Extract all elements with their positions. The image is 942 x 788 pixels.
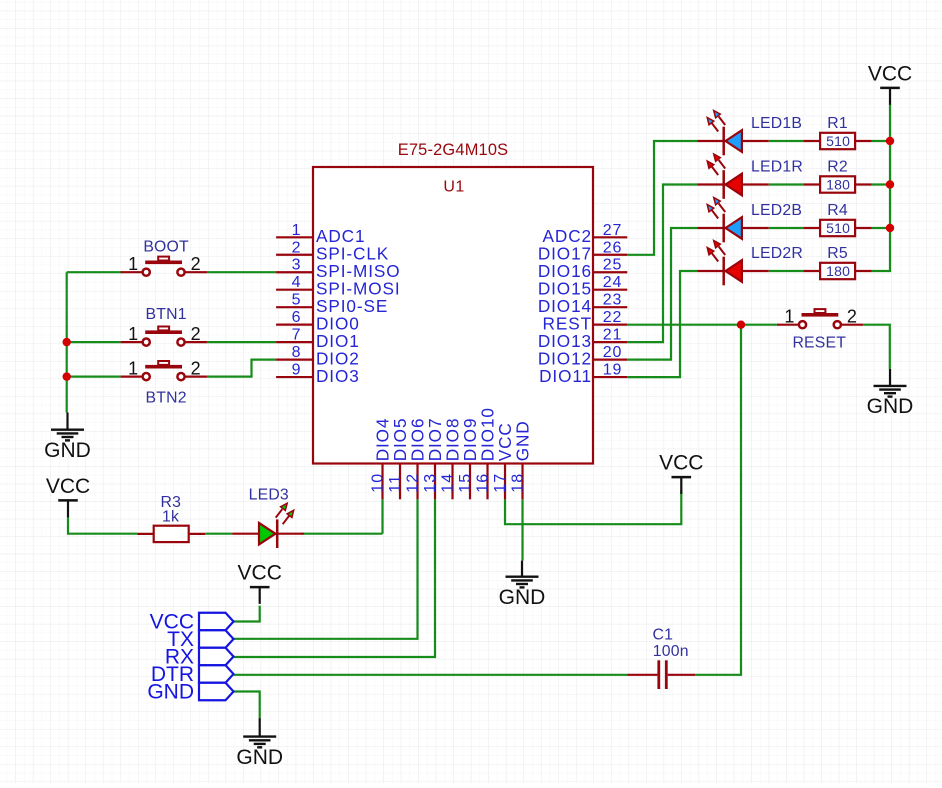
pin 17 VCC (bottom): [492, 422, 515, 499]
pin 26 DIO17 (right): [538, 239, 627, 263]
svg-text:5: 5: [292, 292, 302, 309]
svg-text:LED3: LED3: [249, 486, 289, 503]
svg-text:6: 6: [292, 309, 302, 326]
svg-text:C1: C1: [653, 627, 674, 644]
pin 21 DIO13 (right): [538, 327, 627, 351]
svg-text:9: 9: [292, 362, 302, 379]
svg-text:LED1B: LED1B: [751, 115, 802, 132]
svg-text:11: 11: [387, 474, 404, 493]
wire pin26 to LED1B: [627, 141, 697, 255]
svg-text:1: 1: [128, 359, 138, 379]
pin 11 DIO5 (bottom): [387, 418, 410, 500]
wire pin17 to VCC flag: [505, 491, 681, 525]
resistor R2: [804, 159, 872, 193]
svg-text:15: 15: [457, 473, 474, 493]
svg-text:13: 13: [422, 473, 439, 493]
IC U1 body E75-2G4M10S: [313, 141, 593, 464]
wire VCC left to R3: [68, 517, 137, 534]
svg-text:7: 7: [292, 327, 302, 344]
pin 18 GND (bottom): [509, 420, 532, 499]
svg-text:10: 10: [369, 473, 386, 493]
svg-text:U1: U1: [443, 179, 464, 196]
pin 13 DIO7 (bottom): [422, 418, 445, 500]
connector pin VCC: [150, 610, 234, 633]
pin 4 SPI-MOSI (left): [276, 274, 400, 298]
wire BTN1 to pin7: [207, 341, 276, 343]
wire BOOT/BTN1/BTN2 left vertical to GND: [66, 272, 68, 412]
svg-text:R2: R2: [827, 159, 848, 176]
svg-text:BTN2: BTN2: [146, 390, 187, 407]
svg-text:GND: GND: [867, 395, 914, 418]
svg-text:14: 14: [439, 473, 456, 493]
wire BTN1 row left: [67, 341, 121, 343]
svg-text:GND: GND: [499, 586, 546, 609]
wire BOOT to pin3: [207, 271, 276, 273]
junction: [62, 338, 70, 346]
connector pin DTR: [151, 663, 234, 686]
svg-text:VCC: VCC: [46, 475, 90, 498]
wire R3 to LED3: [205, 533, 232, 535]
svg-text:1: 1: [292, 222, 302, 239]
power flag GND (right of RESET): [867, 369, 914, 418]
svg-text:VCC: VCC: [238, 562, 282, 585]
wire LED1B to R1: [769, 140, 804, 142]
svg-text:1: 1: [128, 254, 138, 274]
wire pin20 to LED2B: [627, 228, 697, 360]
svg-text:1k: 1k: [162, 508, 179, 525]
connector pin GND: [147, 680, 233, 703]
svg-text:180: 180: [826, 177, 850, 193]
wire pin21 to LED1R: [627, 185, 697, 343]
wire VCC rail vertical: [872, 104, 890, 271]
svg-text:GND: GND: [147, 680, 194, 703]
svg-text:8: 8: [292, 344, 302, 361]
junction: [737, 321, 745, 329]
svg-text:BOOT: BOOT: [143, 239, 189, 256]
svg-text:24: 24: [603, 274, 623, 291]
junction: [886, 224, 894, 232]
pin 3 SPI-MISO (left): [276, 257, 400, 281]
svg-text:E75-2G4M10S: E75-2G4M10S: [398, 141, 509, 159]
capacitor C1: [628, 627, 696, 690]
resistor R1: [804, 115, 872, 149]
svg-text:3: 3: [292, 257, 302, 274]
wire R1 to VCC rail: [872, 140, 890, 142]
svg-text:R5: R5: [827, 245, 848, 262]
wire REST node down to C1: [695, 325, 741, 675]
svg-text:23: 23: [603, 292, 623, 309]
pin 20 DIO12 (right): [538, 344, 627, 368]
svg-text:2: 2: [191, 359, 201, 379]
pushbutton RESET: [777, 307, 863, 352]
svg-text:LED2R: LED2R: [751, 245, 803, 262]
svg-text:4: 4: [292, 274, 302, 291]
svg-text:RESET: RESET: [792, 335, 846, 352]
svg-text:21: 21: [603, 327, 623, 344]
svg-text:26: 26: [603, 239, 623, 256]
wire RESET to GND: [863, 325, 890, 369]
wire pin13 to RX: [234, 499, 436, 657]
junction: [886, 137, 894, 145]
svg-text:27: 27: [603, 222, 623, 239]
wire pin10 down: [381, 499, 383, 533]
wire REST pin22 to RESET button: [627, 324, 777, 326]
wire LED2B to R4: [769, 227, 804, 229]
LED LED1B: [697, 111, 802, 156]
pin 8 DIO2 (left): [276, 344, 360, 368]
svg-text:GND: GND: [236, 746, 283, 769]
wire LED1R to R2: [769, 183, 804, 185]
svg-text:25: 25: [603, 257, 623, 274]
wire pin19 to LED2R: [627, 271, 697, 377]
wire R2 to VCC rail: [872, 183, 890, 185]
svg-text:2: 2: [191, 254, 201, 274]
svg-text:GND: GND: [44, 439, 91, 462]
svg-text:12: 12: [404, 473, 421, 493]
svg-text:2: 2: [292, 239, 302, 256]
pushbutton BTN2: [121, 359, 207, 407]
svg-text:VCC: VCC: [868, 62, 912, 85]
svg-text:100n: 100n: [653, 643, 689, 660]
pin 9 DIO3 (left): [276, 362, 360, 386]
resistor R3: [137, 494, 205, 542]
svg-text:1: 1: [128, 324, 138, 344]
svg-text:DIO11: DIO11: [539, 366, 592, 386]
connector pin RX: [165, 645, 234, 668]
resistor R4: [804, 202, 872, 236]
pin 23 DIO14 (right): [538, 292, 627, 316]
connector pin TX: [167, 628, 233, 651]
svg-text:LED1R: LED1R: [751, 159, 803, 176]
pin 16 DIO10 (bottom): [474, 407, 497, 499]
svg-text:18: 18: [509, 473, 526, 493]
pushbutton BOOT: [121, 239, 207, 276]
pin 1 ADC1 (left): [276, 222, 365, 246]
pushbutton BTN1: [121, 306, 207, 346]
wire BOOT row left: [67, 271, 122, 273]
wire connector GND pin down: [234, 692, 260, 719]
svg-text:VCC: VCC: [659, 452, 703, 475]
svg-text:LED2B: LED2B: [751, 202, 802, 219]
wire LED3 row to pin10: [301, 533, 382, 535]
svg-text:BTN1: BTN1: [146, 306, 187, 323]
pin 25 DIO16 (right): [538, 257, 627, 281]
svg-text:510: 510: [826, 133, 850, 149]
pin 2 SPI-CLK (left): [276, 239, 389, 263]
svg-text:1: 1: [784, 307, 794, 327]
pin 19 DIO11 (right): [539, 362, 627, 386]
LED LED2R: [697, 241, 803, 286]
wire pin12 to TX: [234, 499, 418, 639]
pin 15 DIO9 (bottom): [457, 418, 480, 500]
power flag VCC (left of R3): [46, 475, 90, 517]
pin 27 ADC2 (right): [543, 222, 628, 246]
wire LED2R to R5: [769, 270, 804, 272]
svg-text:17: 17: [492, 473, 509, 493]
LED LED2B: [697, 198, 802, 243]
power flag VCC (near pin 17): [659, 452, 703, 494]
pin 10 DIO4 (bottom): [369, 418, 392, 500]
svg-text:DIO3: DIO3: [316, 366, 360, 386]
pin 7 DIO1 (left): [276, 327, 360, 351]
pin 5 SPI0-SE (left): [276, 292, 388, 316]
power flag GND (below connector): [236, 718, 283, 769]
wire R4 to VCC rail: [872, 227, 890, 229]
pin 6 DIO0 (left): [276, 309, 360, 333]
wire connector VCC pin up: [234, 606, 260, 622]
pin 22 REST (right): [543, 309, 628, 333]
resistor R5: [804, 245, 872, 279]
wire BTN2 row left: [67, 376, 121, 378]
svg-text:2: 2: [191, 324, 201, 344]
power flag GND (below pin 18): [499, 561, 546, 609]
svg-text:180: 180: [826, 263, 850, 279]
junction: [886, 180, 894, 188]
LED LED3: [232, 486, 304, 548]
power flag VCC (top right rail): [868, 62, 912, 104]
svg-text:GND: GND: [512, 420, 532, 461]
pin 14 DIO8 (bottom): [439, 418, 462, 500]
junction: [62, 372, 70, 380]
power flag VCC (above connector): [238, 562, 282, 604]
svg-text:16: 16: [474, 473, 491, 493]
wire BTN2 to pin8: [207, 360, 276, 377]
svg-text:R1: R1: [827, 115, 848, 132]
wire DTR to C1: [234, 674, 628, 676]
wire pin18 to GND flag: [521, 499, 523, 560]
svg-text:R4: R4: [827, 202, 848, 219]
svg-text:510: 510: [826, 220, 850, 236]
svg-text:22: 22: [603, 309, 623, 326]
pin 24 DIO15 (right): [538, 274, 627, 298]
LED LED1R: [697, 154, 803, 199]
svg-text:2: 2: [847, 307, 857, 327]
svg-text:20: 20: [603, 344, 623, 361]
pin 12 DIO6 (bottom): [404, 418, 427, 500]
power flag GND (left buttons): [44, 413, 91, 463]
svg-text:19: 19: [603, 362, 623, 379]
